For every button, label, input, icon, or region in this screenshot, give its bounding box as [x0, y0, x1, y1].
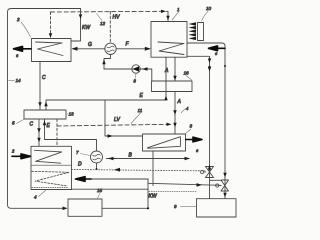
- wire: riser x148 down to tank line: [102, 179, 148, 208]
- wire: branch from E line down and right into HX5 left: [105, 100, 143, 136]
- arrow down on V1 column: [208, 58, 211, 63]
- arrow down on V1 column 2: [208, 67, 211, 72]
- dashed LV line horizontal: [57, 124, 170, 126]
- wire: separator top-left up and left to pump B line: [104, 69, 152, 81]
- svg-text:KW: KW: [149, 194, 158, 200]
- wire: left outer pipe from top-left down to bottom feed of tank 15: [8, 9, 81, 209]
- arrow down x2: [37, 128, 40, 133]
- arrow down above valve V2: [223, 173, 226, 178]
- wire: condenser out to right side pipe: [187, 43, 225, 199]
- dashed line HV across top: [51, 10, 168, 13]
- wire: up into fan G bottom: [104, 55, 111, 69]
- arrow up at vessel top: [44, 102, 47, 107]
- arrow right toward valve V2: [197, 183, 203, 187]
- fan G circle: [105, 43, 116, 54]
- svg-text:14: 14: [16, 78, 22, 83]
- svg-text:1: 1: [177, 7, 180, 12]
- wire: stream C from vessel bottom down to HX3 top: [38, 119, 40, 146]
- mid vessel rectangle 13: [24, 110, 66, 119]
- dotted return line from valve V1 to HX3: [72, 170, 206, 171]
- svg-text:4: 4: [34, 195, 37, 200]
- svg-text:16: 16: [184, 71, 190, 76]
- bold arrow pointing left on condenser out: [209, 46, 226, 51]
- arrow down 2: [173, 123, 176, 128]
- wire: HX2 bottom-right to valve V1 column: [187, 56, 210, 198]
- svg-text:A: A: [177, 99, 182, 105]
- wire: B line to pump D, arrows both ends: [107, 158, 190, 160]
- svg-text:10: 10: [206, 6, 212, 11]
- heat exchanger HX2 (top-right): [151, 22, 187, 58]
- dashed drop into fan G top: [109, 12, 111, 43]
- arrow down into vessel top: [38, 102, 41, 107]
- wire: stream E up into vessel bottom from pump D feed line: [45, 119, 97, 151]
- arrow down: [173, 110, 176, 115]
- condenser fin arrows right of HX2: [189, 22, 197, 40]
- wire: drop into HX2 top: [167, 11, 169, 21]
- arrow right at end of HV dashed: [161, 10, 166, 13]
- arrow down into HX1 top: [49, 33, 52, 38]
- wire: line to valve V2: [148, 183, 221, 185]
- heat exchanger HX1 (top-left): [32, 39, 72, 62]
- bold arrow out of HX5 right: [186, 137, 202, 142]
- wire: separator bottom to HX5 top: [174, 92, 176, 134]
- dotted liquid level line: [32, 187, 68, 189]
- condenser slab rectangle: [198, 23, 204, 41]
- heat exchanger HX5 (mid-right): [143, 134, 186, 151]
- arrow up: [102, 60, 105, 65]
- pump B circle with black cone: [132, 65, 140, 73]
- svg-text:11: 11: [138, 108, 143, 113]
- HX1 coil zigzag: [36, 42, 64, 56]
- svg-text:A: A: [164, 68, 169, 74]
- upper coil zigzag: [35, 150, 62, 163]
- pump D bottom stub: [96, 163, 98, 170]
- bold arrow out of HX1 left: [14, 46, 32, 51]
- arrow left into pump B: [142, 67, 148, 71]
- arrow into tank 15 left: [63, 207, 68, 211]
- arrow right at LV end: [167, 123, 172, 126]
- svg-text:LV: LV: [114, 117, 121, 123]
- junction dot at tank corner: [147, 207, 149, 209]
- wire: HX2 bottom left drop to separator 16: [174, 57, 176, 81]
- svg-text:C: C: [30, 122, 34, 128]
- svg-text:KW: KW: [82, 25, 91, 31]
- junction dot right column: [224, 65, 226, 67]
- tank 15 (bottom-centre): [68, 199, 102, 216]
- wire: HX3 bottom right line: [72, 188, 149, 190]
- svg-text:7: 7: [76, 150, 79, 155]
- svg-text:2: 2: [16, 17, 20, 22]
- svg-text:D: D: [78, 162, 82, 168]
- arrow down into receiver 9: [223, 193, 226, 198]
- dashed LV drop from vessel bottom to HX3 top: [56, 119, 58, 146]
- wire: drop from top pipe into HX1 top-right: [71, 9, 81, 42]
- separator rectangle 16: [152, 81, 193, 92]
- arrow down on drop: [79, 14, 82, 19]
- heat exchanger HX3/HX4 stack (bottom-left): [31, 146, 72, 189]
- svg-text:9: 9: [174, 204, 177, 209]
- dotted KW line: [149, 190, 196, 192]
- svg-text:15: 15: [97, 188, 103, 193]
- bold arrow into HX3 left: [12, 154, 31, 159]
- pump D circle: [91, 151, 103, 163]
- svg-text:3: 3: [190, 124, 193, 129]
- receiver 9 (bottom-right): [197, 199, 237, 217]
- arrow down into HX2 top: [166, 16, 169, 21]
- arrow left on dotted return: [114, 168, 120, 172]
- svg-text:C: C: [42, 75, 46, 81]
- svg-text:5: 5: [12, 121, 15, 126]
- wire: fan G to HX2 left, arrow pointing right into HX2: [116, 48, 149, 50]
- HX5 diagonal coil: [148, 137, 181, 149]
- arrow right into HX5: [108, 134, 114, 138]
- valve V1: [200, 165, 213, 178]
- dashed drop into HX1 top: [50, 12, 52, 33]
- wire: from bold arrow tail right to riser: [92, 178, 149, 180]
- wire: stream C from HX1 bottom down to mid vessel: [39, 62, 41, 111]
- svg-text:13: 13: [69, 112, 75, 117]
- svg-text:G: G: [88, 42, 92, 48]
- junction dot: [208, 66, 210, 68]
- lower coil zigzag dashed: [32, 171, 69, 186]
- arrow down into separator 16: [173, 76, 176, 81]
- valve V1 to V2 link: [210, 179, 222, 181]
- arrow up into vessel bottom: [43, 121, 46, 126]
- internal divider: [31, 164, 72, 166]
- wire: HX1 right to fan G, arrow pointing left into HX1: [73, 48, 105, 50]
- svg-text:12: 12: [100, 21, 106, 26]
- HX2 coil zigzag: [158, 42, 184, 55]
- bold arrow into HX4 right: [76, 177, 92, 182]
- arrow up near HX2 bottom: [164, 96, 167, 101]
- valve V2: [216, 180, 229, 191]
- wire: stream E from mid vessel up then right to HX2 bottom: [46, 57, 166, 110]
- svg-text:HV: HV: [113, 15, 121, 21]
- label 4 tiny leader near A column: [181, 109, 186, 114]
- wire: HX5 bottom drop to B line and lower lines: [152, 151, 154, 186]
